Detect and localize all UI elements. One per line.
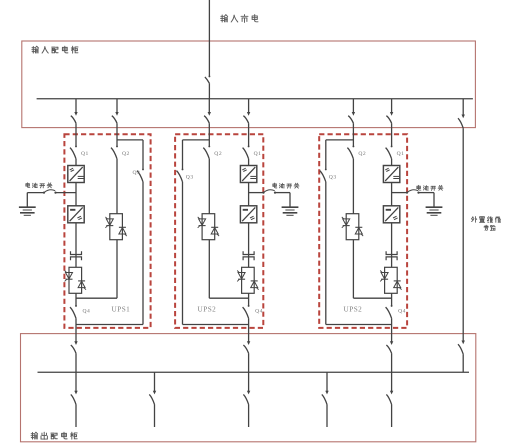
- svg-text:Q2: Q2: [358, 151, 366, 157]
- svg-text:UPS2: UPS2: [344, 306, 363, 314]
- svg-text:Q2: Q2: [214, 151, 222, 157]
- svg-text:Q3: Q3: [329, 174, 337, 180]
- svg-text:UPS1: UPS1: [112, 306, 131, 314]
- svg-text:Q3: Q3: [133, 170, 141, 176]
- svg-text:Q1: Q1: [254, 151, 262, 157]
- svg-text:Q1: Q1: [397, 151, 405, 157]
- svg-text:Q4: Q4: [83, 308, 91, 314]
- svg-text:Q1: Q1: [81, 151, 89, 157]
- svg-text:UPS2: UPS2: [198, 306, 217, 314]
- svg-text:Q2: Q2: [122, 151, 130, 157]
- svg-text:Q3: Q3: [186, 174, 194, 180]
- svg-text:Q4: Q4: [255, 308, 263, 314]
- svg-text:Q4: Q4: [398, 308, 406, 314]
